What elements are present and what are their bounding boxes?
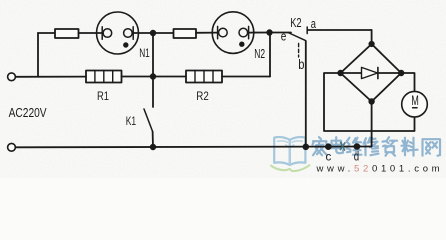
svg-text:M: M bbox=[411, 92, 419, 108]
svg-text:K2: K2 bbox=[290, 16, 301, 30]
bridge rectifier diamond bbox=[341, 44, 402, 102]
node bridge left bbox=[337, 70, 343, 76]
node bridge top bbox=[369, 41, 375, 47]
修 bbox=[364, 138, 379, 156]
svg-text:R2: R2 bbox=[196, 89, 209, 103]
node bridge right bbox=[398, 70, 404, 76]
socket N2 bbox=[212, 12, 254, 54]
资 bbox=[383, 137, 398, 156]
wire fuse1 to N1 bbox=[79, 32, 103, 34]
wire T1 to R1 bbox=[16, 76, 87, 78]
wire bridge bottom drop bbox=[371, 102, 373, 147]
wire bridge right to motor bbox=[401, 73, 414, 92]
wire top left segment bbox=[38, 32, 55, 34]
wire riser to node e bbox=[269, 33, 271, 77]
switch K2 linkage dashed bbox=[298, 44, 300, 58]
resistor R2 bbox=[186, 71, 222, 83]
fuse FU1 bbox=[55, 29, 79, 38]
node bridge bottom bbox=[368, 98, 374, 104]
svg-text:c: c bbox=[326, 149, 332, 163]
node top junction x153 bbox=[150, 30, 156, 36]
fuse FU2 bbox=[174, 29, 197, 38]
diode D inside bridge bbox=[341, 67, 402, 78]
wire bridge left loop bbox=[324, 73, 415, 131]
维 bbox=[347, 138, 362, 156]
node R row x153 bbox=[150, 73, 156, 79]
wire b contact line bbox=[305, 41, 307, 147]
motor underline bbox=[413, 107, 417, 109]
网 bbox=[423, 139, 441, 156]
wire vertical from node to top wire bbox=[37, 33, 39, 77]
家 bbox=[313, 137, 328, 155]
svg-text:www.520101.com: www.520101.com bbox=[316, 163, 444, 174]
switch K2 common wire bbox=[270, 32, 292, 34]
socket N1 bbox=[97, 12, 139, 54]
terminal T1 bbox=[8, 73, 16, 81]
switch K1 lower wire bbox=[152, 132, 154, 148]
wire N2 to node e bbox=[249, 32, 270, 34]
wire N1 to fuse2 bbox=[133, 32, 173, 34]
node bottom b bbox=[303, 144, 310, 151]
resistor R1 bbox=[86, 71, 122, 83]
watermark logo open book bbox=[271, 137, 309, 171]
svg-text:R1: R1 bbox=[97, 89, 109, 103]
svg-text:b: b bbox=[298, 57, 304, 72]
svg-text:e: e bbox=[281, 29, 287, 43]
node e junction bbox=[266, 29, 272, 35]
料 bbox=[402, 138, 418, 156]
wire fuse2 to N2 bbox=[196, 32, 218, 34]
motor M circle bbox=[402, 91, 428, 117]
watermark chinese text 家电维修资料网 bbox=[313, 137, 441, 156]
svg-text:N2: N2 bbox=[254, 47, 265, 61]
terminal T2 bbox=[8, 143, 16, 151]
svg-text:a: a bbox=[311, 17, 316, 31]
contact a tick bbox=[306, 27, 308, 34]
main circuit strokes bbox=[8, 12, 428, 151]
svg-text:d: d bbox=[354, 150, 359, 164]
wire a to bridge top bbox=[308, 29, 372, 31]
wire R2 right to riser bbox=[222, 76, 270, 78]
svg-text:AC220V: AC220V bbox=[9, 105, 47, 120]
switch K2 blade bbox=[288, 33, 306, 41]
watermark dark overlap x on wire bbox=[341, 143, 345, 151]
switch K1 blade bbox=[144, 109, 153, 132]
svg-text:K1: K1 bbox=[126, 114, 137, 128]
wire R1 to R2 bbox=[122, 76, 187, 78]
switch K1 upper wire bbox=[152, 33, 154, 107]
bottom wire bbox=[16, 146, 372, 149]
node c bbox=[325, 143, 332, 150]
svg-text:N1: N1 bbox=[139, 46, 150, 60]
电 bbox=[332, 137, 344, 153]
node bottom K1 bbox=[150, 144, 156, 150]
wire bridge top drop bbox=[371, 30, 373, 44]
node d bbox=[354, 143, 361, 150]
